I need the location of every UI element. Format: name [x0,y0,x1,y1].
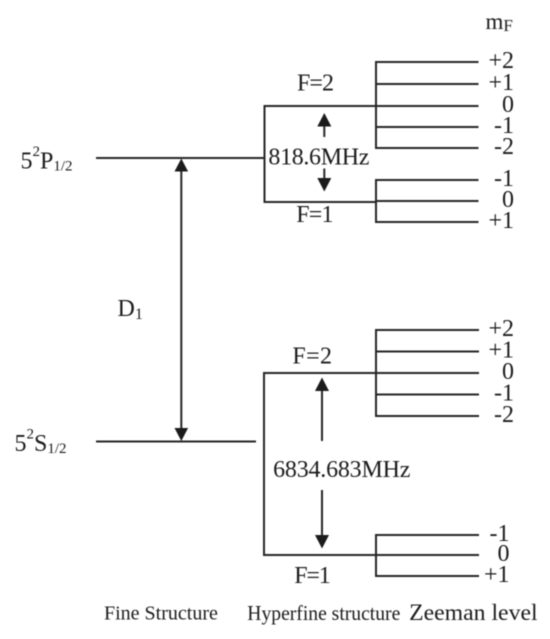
level line S F=2 mF+1 [375,351,479,353]
svg-text:F=1: F=1 [294,563,331,589]
level line 5^2S1/2 [96,441,256,443]
wire P F=2 branch [264,105,378,107]
svg-text:mF: mF [486,9,513,35]
svg-text:52S1/2: 52S1/2 [15,427,67,458]
svg-text:Hyperfine structure: Hyperfine structure [247,601,400,625]
svg-text:6834.683MHz: 6834.683MHz [273,457,410,483]
svg-text:Fine Structure: Fine Structure [104,603,218,625]
svg-text:818.6MHz: 818.6MHz [268,144,369,170]
arrow 6834.683MHz up [315,378,329,442]
wire S hyperfine bracket vertical [263,372,265,556]
arrow 818.6MHz up [317,113,331,137]
level line P F=2 mF+2 [375,61,479,63]
wire S F=2 Zeeman fan vertical [375,329,377,417]
svg-text:-2: -2 [494,402,514,428]
level line S F=1 mF-1 [375,534,479,536]
wire P F=2 Zeeman fan vertical [375,61,377,149]
wire P F=1 branch [264,201,378,203]
level line S F=1 mF0 [375,554,479,556]
svg-text:-2: -2 [494,134,514,160]
svg-text:52P1/2: 52P1/2 [21,144,73,175]
level line S F=2 mF+2 [375,329,479,331]
level line 5^2P1/2 [96,157,265,159]
level line S F=2 mF-2 [375,415,479,417]
level line S F=2 mF-1 [375,394,479,396]
arrow 6834.683MHz down [315,490,329,549]
level line P F=2 mF-1 [375,126,479,128]
level line P F=1 mF+1 [375,221,479,223]
arrow D1 transition double-headed [175,159,189,442]
level line P F=2 mF-2 [375,147,479,149]
wire S F=2 branch [263,372,377,374]
wire S F=1 Zeeman fan vertical [375,534,377,577]
level line P F=1 mF-1 [375,179,479,181]
svg-text:F=2: F=2 [292,344,332,370]
svg-text:Zeeman level: Zeeman level [409,600,537,625]
level line P F=2 mF0 [375,105,479,107]
wire P hyperfine bracket vertical [264,105,266,203]
svg-text:F=2: F=2 [297,71,334,97]
level line S F=1 mF+1 [375,575,479,577]
level line S F=2 mF0 [375,372,479,374]
wire S F=1 branch [263,554,377,556]
svg-text:D1: D1 [118,296,143,323]
wire P F=1 Zeeman fan vertical [375,179,377,223]
level line P F=1 mF0 [375,200,479,202]
arrow 818.6MHz down [317,169,331,192]
svg-text:+1: +1 [484,562,510,588]
svg-text:+1: +1 [488,208,514,234]
level line P F=2 mF+1 [375,83,479,85]
svg-text:F=1: F=1 [296,202,333,228]
